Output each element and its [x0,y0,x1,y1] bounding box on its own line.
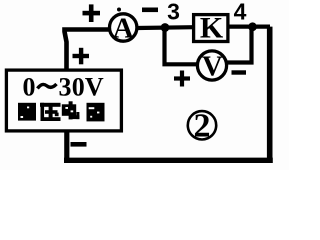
- label (voltmeter negative terminal) [232,70,247,74]
wire: from power supply + terminal up and right to ammeter [65,30,110,71]
svg-text:4: 4 [234,0,247,25]
svg-text:A: A [113,12,134,44]
svg-text:K: K [200,11,224,44]
voltmeter V1 [197,50,226,82]
wire: switch K to top-right corner [228,25,270,29]
label 电 (Chinese char, drawn) [62,101,80,119]
switch K [194,11,228,44]
wire: power supply - terminal down to bottom wire [64,131,69,161]
- label (power supply negative terminal) [71,142,87,147]
+ label (power supply positive terminal) [73,48,90,65]
ammeter A1 [110,8,137,45]
svg-text:3: 3 [167,0,180,25]
label 源 (Chinese char, drawn) [87,103,105,122]
label 稳 (Chinese char, drawn) [18,103,36,121]
wire: voltmeter branch from node 3 down and right [165,28,198,65]
svg-text:V: V [202,50,223,82]
+ label (voltmeter positive terminal) [174,71,190,87]
node 3 junction [161,23,170,32]
label 压 (Chinese char, drawn) [40,103,61,121]
wire: voltmeter right side up to node 4 [228,27,252,63]
node 4 junction [248,22,257,31]
svg-text:30V: 30V [59,72,104,101]
svg-text:2: 2 [194,108,211,145]
+ label (ammeter positive terminal, above wire) [83,4,101,22]
- label (ammeter negative terminal, above wire) [142,8,158,13]
label circled 2 (figure number) [188,108,216,145]
wire: bottom of circuit [64,158,273,163]
wire: ammeter to switch K [138,25,195,30]
power supply box (0-30V regulated supply) [6,70,121,131]
svg-text:0: 0 [23,72,36,101]
label 0~30V [23,72,104,101]
wire: right edge of circuit, node 4 corner down to bottom [267,27,273,161]
